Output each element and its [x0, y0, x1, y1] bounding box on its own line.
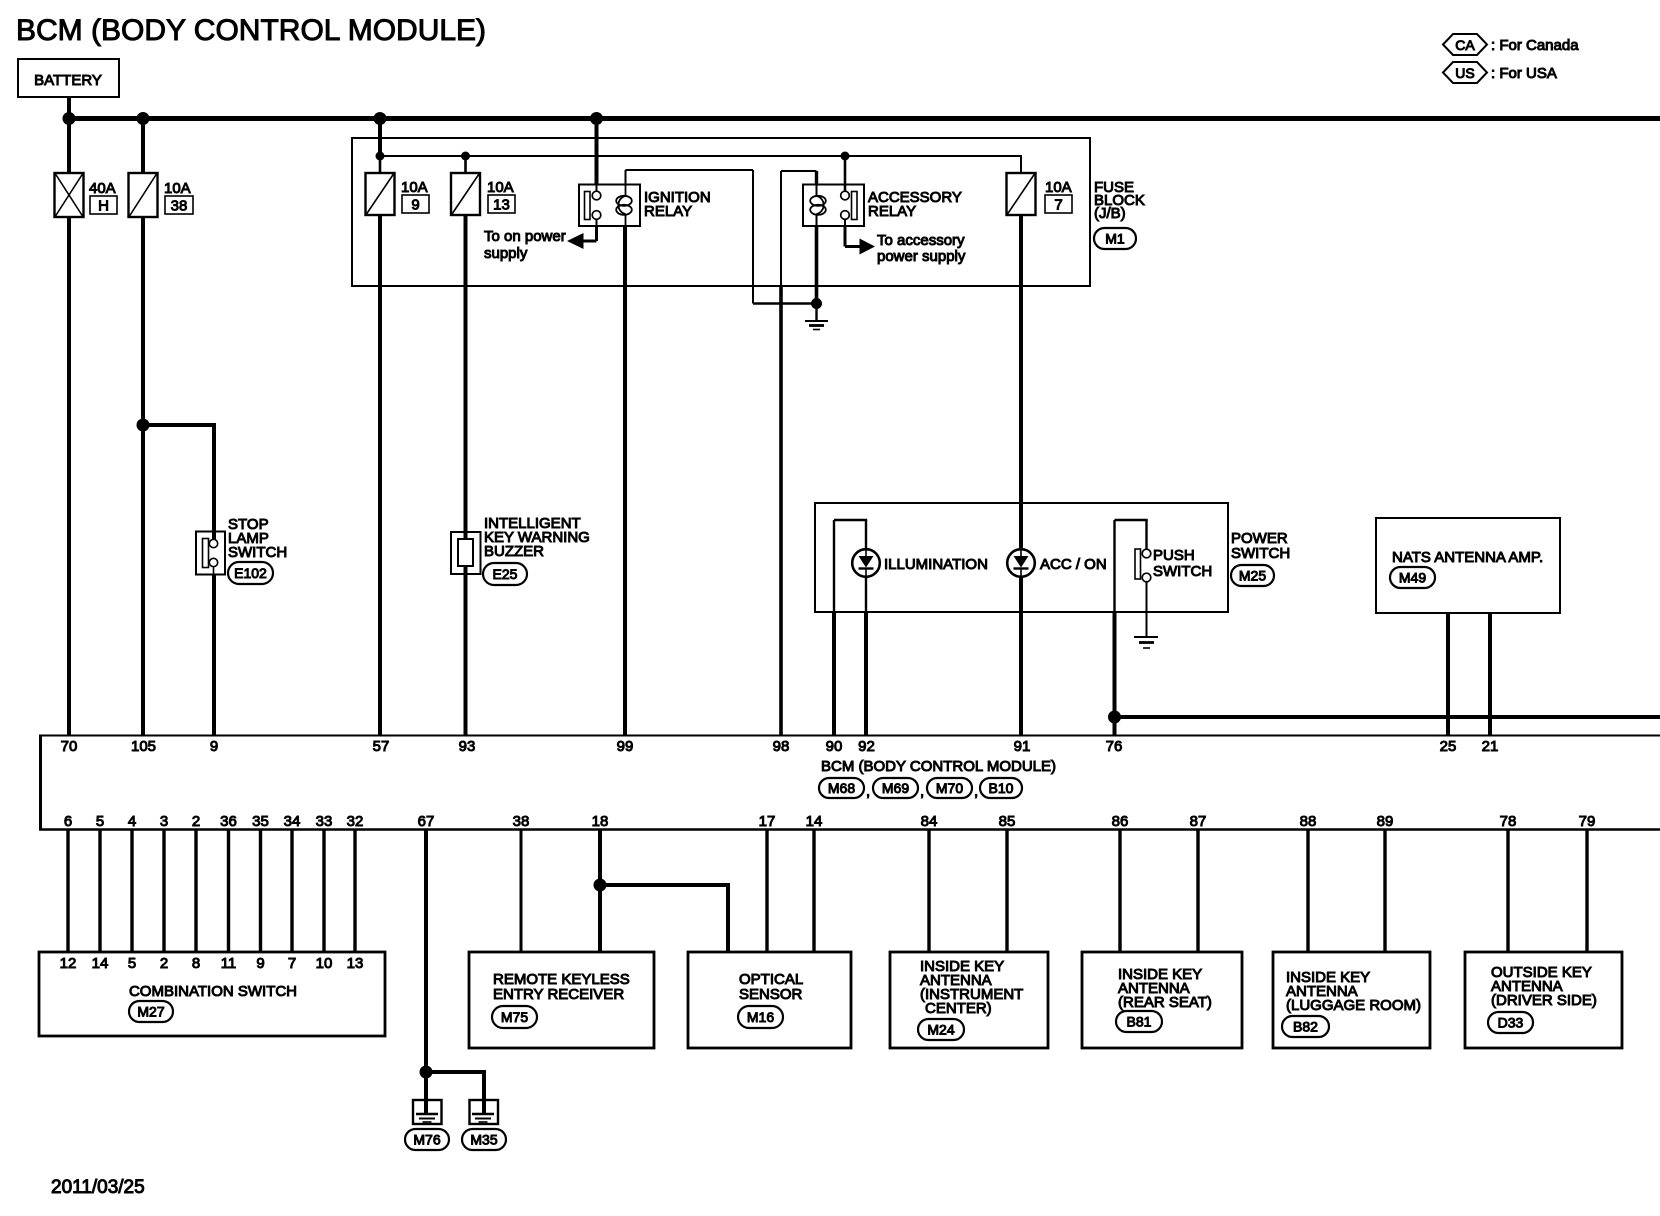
inside key antenna (luggage room) B82: [1273, 952, 1430, 1048]
wire pin 38 to remote keyless entry receiver: [520, 830, 523, 952]
svg-text:BUZZER: BUZZER: [484, 543, 544, 560]
svg-text:BCM (BODY CONTROL MODULE): BCM (BODY CONTROL MODULE): [16, 14, 486, 47]
svg-text:M76: M76: [413, 1132, 440, 1148]
wire fuse 38 to pin 105: [141, 217, 145, 735]
connector M70: [927, 778, 972, 798]
svg-text:BATTERY: BATTERY: [34, 72, 102, 89]
junction fuse 9: [376, 152, 385, 161]
fuse 10A 13: [451, 173, 480, 215]
svg-text:2011/03/25: 2011/03/25: [51, 1177, 145, 1198]
svg-text:10A: 10A: [487, 179, 514, 196]
svg-text:To accessory: To accessory: [877, 232, 965, 249]
BCM (body control module) box: [39, 735, 1660, 737]
connector M69: [873, 778, 918, 798]
svg-text:,: ,: [974, 783, 978, 800]
wire pin 18 branch to optical sensor: [600, 883, 730, 887]
svg-text:(LUGGAGE ROOM): (LUGGAGE ROOM): [1286, 997, 1421, 1014]
svg-text:38: 38: [171, 198, 188, 215]
svg-text:CENTER): CENTER): [925, 1000, 992, 1017]
wire branch to stop lamp switch: [143, 423, 214, 427]
wire NATS to pin 25: [1446, 613, 1450, 735]
svg-text:92: 92: [858, 738, 875, 755]
wire ignition contact to on power supply arrow: [596, 219, 598, 227]
connector E25: [483, 563, 527, 585]
wire pin 85 to antenna: [1005, 830, 1008, 952]
inside key antenna (rear seat) B81: [1082, 952, 1242, 1048]
connector M25: [1231, 565, 1274, 586]
legend US : For USA: [1443, 62, 1487, 83]
wire pin 78 to antenna: [1506, 830, 1509, 952]
svg-text:M1: M1: [1105, 231, 1125, 247]
svg-text:M16: M16: [747, 1009, 774, 1025]
ground (push switch): [1134, 636, 1158, 638]
svg-text:E25: E25: [493, 566, 518, 582]
svg-text:(J/B): (J/B): [1094, 205, 1126, 222]
wire bus to ignition relay contact: [595, 118, 599, 185]
wire fuse 13 to pin 93: [464, 215, 468, 735]
junction pin 18 branch: [594, 879, 607, 892]
svg-text:32: 32: [347, 813, 364, 830]
optical sensor M16: [688, 952, 851, 1048]
svg-text:9: 9: [210, 738, 218, 755]
svg-text:13: 13: [493, 197, 510, 214]
push switch contact: [1135, 549, 1141, 579]
svg-text:,: ,: [920, 783, 924, 800]
connector B10: [980, 778, 1022, 798]
junction fuse block feed: [374, 112, 387, 125]
wire accessory contact to accessory power supply arrow: [844, 219, 846, 227]
fuse 40A H (fusible link): [55, 173, 84, 217]
wire bus to fuse 40A: [67, 118, 71, 173]
LED acc/on: [1007, 549, 1035, 577]
svg-text:SENSOR: SENSOR: [739, 986, 803, 1003]
fuse 10A 7: [1007, 173, 1036, 215]
connector M24: [918, 1019, 964, 1040]
wire pin 14 to optical sensor: [812, 830, 815, 952]
svg-text:D33: D33: [1498, 1015, 1524, 1031]
svg-text:: For USA: : For USA: [1491, 65, 1557, 82]
svg-text:: For Canada: : For Canada: [1491, 37, 1579, 54]
svg-text:10: 10: [316, 955, 333, 972]
legend CA : For Canada: [1443, 34, 1487, 55]
svg-text:40A: 40A: [89, 180, 116, 197]
svg-text:B10: B10: [989, 780, 1014, 796]
svg-text:89: 89: [1377, 813, 1394, 830]
svg-text:5: 5: [128, 955, 136, 972]
wire ignition coil top to ground net: [625, 170, 627, 185]
wire accessory contact from fuse line: [844, 156, 847, 192]
wire main battery bus: [67, 116, 1660, 121]
svg-text:76: 76: [1106, 738, 1123, 755]
ground M76: [413, 1100, 442, 1124]
svg-text:4: 4: [128, 813, 136, 830]
svg-text:8: 8: [192, 955, 200, 972]
svg-text:supply: supply: [484, 245, 528, 262]
svg-text:10A: 10A: [1045, 179, 1072, 196]
fuse block (J/B) box: [352, 138, 1090, 286]
wire fuse 7 to power switch: [1019, 215, 1023, 503]
connector M27: [129, 1001, 173, 1022]
svg-text:To on power: To on power: [484, 228, 566, 245]
svg-text:87: 87: [1190, 813, 1207, 830]
svg-text:12: 12: [60, 955, 77, 972]
wire inner fuse feed line: [378, 118, 382, 156]
wire ignition coil to pin 99: [623, 226, 627, 735]
svg-text:RELAY: RELAY: [644, 203, 692, 220]
junction ignition relay feed: [590, 112, 603, 125]
connector M1: [1094, 228, 1136, 249]
wire accessory coil top to pin 98: [815, 171, 818, 185]
fuse 10A 38: [129, 173, 158, 217]
wire push switch loop: [1113, 520, 1115, 612]
svg-text:NATS ANTENNA AMP.: NATS ANTENNA AMP.: [1392, 549, 1543, 566]
svg-text:105: 105: [131, 738, 156, 755]
wire pin 98: [779, 286, 783, 735]
svg-text:9: 9: [411, 197, 419, 214]
svg-text:7: 7: [288, 955, 296, 972]
connector M75: [492, 1006, 537, 1028]
junction battery bus: [63, 112, 76, 125]
connector B82: [1282, 1016, 1329, 1037]
LED illumination: [852, 549, 880, 577]
svg-text:5: 5: [96, 813, 104, 830]
svg-text:ILLUMINATION: ILLUMINATION: [884, 556, 988, 573]
svg-text:M27: M27: [137, 1004, 164, 1020]
stop lamp switch E102: [196, 532, 225, 575]
svg-text:SWITCH: SWITCH: [1153, 563, 1212, 580]
svg-text:25: 25: [1440, 738, 1457, 755]
svg-text:RELAY: RELAY: [868, 203, 916, 220]
svg-text:M68: M68: [828, 780, 855, 796]
svg-text:17: 17: [759, 813, 776, 830]
svg-text:(REAR SEAT): (REAR SEAT): [1118, 994, 1212, 1011]
svg-text:34: 34: [284, 813, 301, 830]
wire illumination LED to box bottom: [865, 576, 867, 612]
wire feed to fuse 13: [464, 156, 467, 173]
svg-text:M69: M69: [882, 780, 909, 796]
outside key antenna (driver side) D33: [1465, 952, 1622, 1048]
arrow to on power supply: [567, 233, 584, 249]
svg-text:M24: M24: [927, 1022, 954, 1038]
svg-text:13: 13: [347, 955, 364, 972]
svg-text:14: 14: [806, 813, 823, 830]
svg-text:14: 14: [92, 955, 109, 972]
svg-text:M49: M49: [1399, 570, 1426, 586]
svg-text:SWITCH: SWITCH: [228, 544, 287, 561]
svg-text:power supply: power supply: [877, 248, 966, 265]
svg-text:93: 93: [459, 738, 476, 755]
connector M49: [1390, 567, 1435, 588]
svg-text:57: 57: [373, 738, 390, 755]
ignition relay: [579, 185, 640, 227]
svg-text:2: 2: [160, 955, 168, 972]
ground (fuse block): [815, 304, 817, 322]
svg-text:67: 67: [418, 813, 435, 830]
svg-text:M75: M75: [501, 1009, 528, 1025]
wire pin 67 to grounds: [424, 830, 428, 1072]
wire pin 86 to antenna: [1118, 830, 1121, 952]
accessory relay: [803, 185, 864, 227]
svg-text:6: 6: [64, 813, 72, 830]
svg-text:B82: B82: [1293, 1019, 1318, 1035]
wire accessory coil bottom to ground: [815, 226, 819, 304]
svg-text:ENTRY RECEIVER: ENTRY RECEIVER: [493, 986, 624, 1003]
svg-text:35: 35: [252, 813, 269, 830]
wire fuse 9 to pin 57: [378, 215, 382, 735]
wire pin 92: [864, 612, 868, 735]
fuse 10A 9: [366, 173, 395, 215]
svg-text:38: 38: [513, 813, 530, 830]
NATS antenna amp M49: [1376, 518, 1560, 613]
connector M35: [462, 1129, 506, 1150]
svg-text:11: 11: [221, 955, 237, 972]
remote keyless entry receiver M75: [469, 952, 654, 1048]
arrow to accessory power supply: [860, 239, 876, 255]
intelligent key warning buzzer E25: [451, 532, 481, 574]
svg-text:PUSH: PUSH: [1153, 547, 1195, 564]
combination switch M27: [39, 952, 385, 1036]
svg-text:9: 9: [256, 955, 264, 972]
svg-text:18: 18: [592, 813, 609, 830]
svg-text:3: 3: [160, 813, 168, 830]
svg-text:10A: 10A: [401, 179, 428, 196]
wire pin 90: [832, 612, 836, 735]
svg-text:86: 86: [1112, 813, 1129, 830]
wire pin 17 to optical sensor: [765, 830, 768, 952]
wire pin 89 to antenna: [1383, 830, 1386, 952]
svg-text:H: H: [98, 198, 109, 215]
svg-text:99: 99: [617, 738, 634, 755]
connector B81: [1116, 1011, 1162, 1032]
svg-text:78: 78: [1500, 813, 1517, 830]
svg-text:90: 90: [826, 738, 843, 755]
svg-text:B81: B81: [1127, 1014, 1152, 1030]
wire feed to fuse 9: [379, 156, 382, 173]
ignition relay coil: [625, 185, 627, 197]
junction fuse 38: [137, 112, 150, 125]
junction stop lamp branch: [137, 419, 150, 432]
svg-text:98: 98: [773, 738, 790, 755]
svg-text:2: 2: [192, 813, 200, 830]
svg-text:33: 33: [316, 813, 333, 830]
svg-text:CA: CA: [1455, 37, 1475, 53]
svg-text:10A: 10A: [164, 180, 191, 197]
wire bus to fuse 38: [141, 118, 145, 173]
svg-text:M25: M25: [1239, 568, 1266, 584]
svg-text:,: ,: [866, 783, 870, 800]
svg-text:88: 88: [1300, 813, 1317, 830]
wire fuse 40A to pin 70: [67, 217, 71, 735]
svg-text:COMBINATION SWITCH: COMBINATION SWITCH: [129, 983, 297, 1000]
svg-text:E102: E102: [234, 565, 267, 581]
wire pin 88 to antenna: [1306, 830, 1309, 952]
connector M76: [405, 1129, 449, 1150]
wire pin 84 to antenna: [927, 830, 930, 952]
svg-text:BCM (BODY CONTROL MODULE): BCM (BODY CONTROL MODULE): [821, 758, 1056, 775]
wire pin 79 to antenna: [1585, 830, 1588, 952]
svg-text:M70: M70: [936, 780, 963, 796]
svg-text:US: US: [1455, 65, 1474, 81]
ground M35: [470, 1100, 499, 1124]
wire push switch to ground: [1146, 582, 1148, 638]
junction ground branch: [420, 1066, 433, 1079]
wire acc/on: [1019, 503, 1023, 550]
svg-text:ACC / ON: ACC / ON: [1040, 556, 1107, 573]
wire feed to fuse 7: [1020, 155, 1022, 173]
wire pin 76 branch to right edge: [1115, 715, 1660, 719]
battery: [18, 59, 119, 97]
inside key antenna (instrument center) M24: [890, 952, 1048, 1048]
svg-text:85: 85: [999, 813, 1016, 830]
wire pin 87 to antenna: [1196, 830, 1199, 952]
svg-text:SWITCH: SWITCH: [1231, 545, 1290, 562]
wire NATS to pin 21: [1488, 613, 1492, 735]
svg-text:21: 21: [1482, 738, 1499, 755]
junction fuse 13: [461, 152, 470, 161]
svg-text:M35: M35: [470, 1132, 497, 1148]
junction pin 76 branch: [1108, 711, 1121, 724]
wire illumination loop: [833, 520, 835, 612]
wire push switch to pin 76: [1113, 612, 1117, 735]
connector M16: [738, 1006, 783, 1028]
junction accessory relay contact: [841, 152, 850, 161]
junction ground net: [811, 298, 822, 309]
connector D33: [1488, 1012, 1533, 1033]
svg-text:(DRIVER SIDE): (DRIVER SIDE): [1491, 992, 1597, 1009]
svg-text:36: 36: [220, 813, 237, 830]
wire acc/on LED to pin 91: [1019, 576, 1023, 735]
accessory relay coil: [816, 185, 818, 197]
wire battery to bus: [67, 97, 71, 118]
wire branch to ground M35: [426, 1070, 486, 1074]
svg-text:7: 7: [1054, 197, 1062, 214]
connector M68: [819, 778, 864, 798]
svg-text:91: 91: [1014, 738, 1031, 755]
wire stop lamp switch to pin 9: [212, 574, 216, 735]
svg-text:84: 84: [921, 813, 938, 830]
wire to ground M76: [424, 1072, 428, 1114]
power switch box M25: [815, 503, 1228, 612]
wire pin 18 to remote keyless entry receiver: [598, 830, 602, 952]
svg-text:70: 70: [61, 738, 78, 755]
svg-text:79: 79: [1579, 813, 1596, 830]
